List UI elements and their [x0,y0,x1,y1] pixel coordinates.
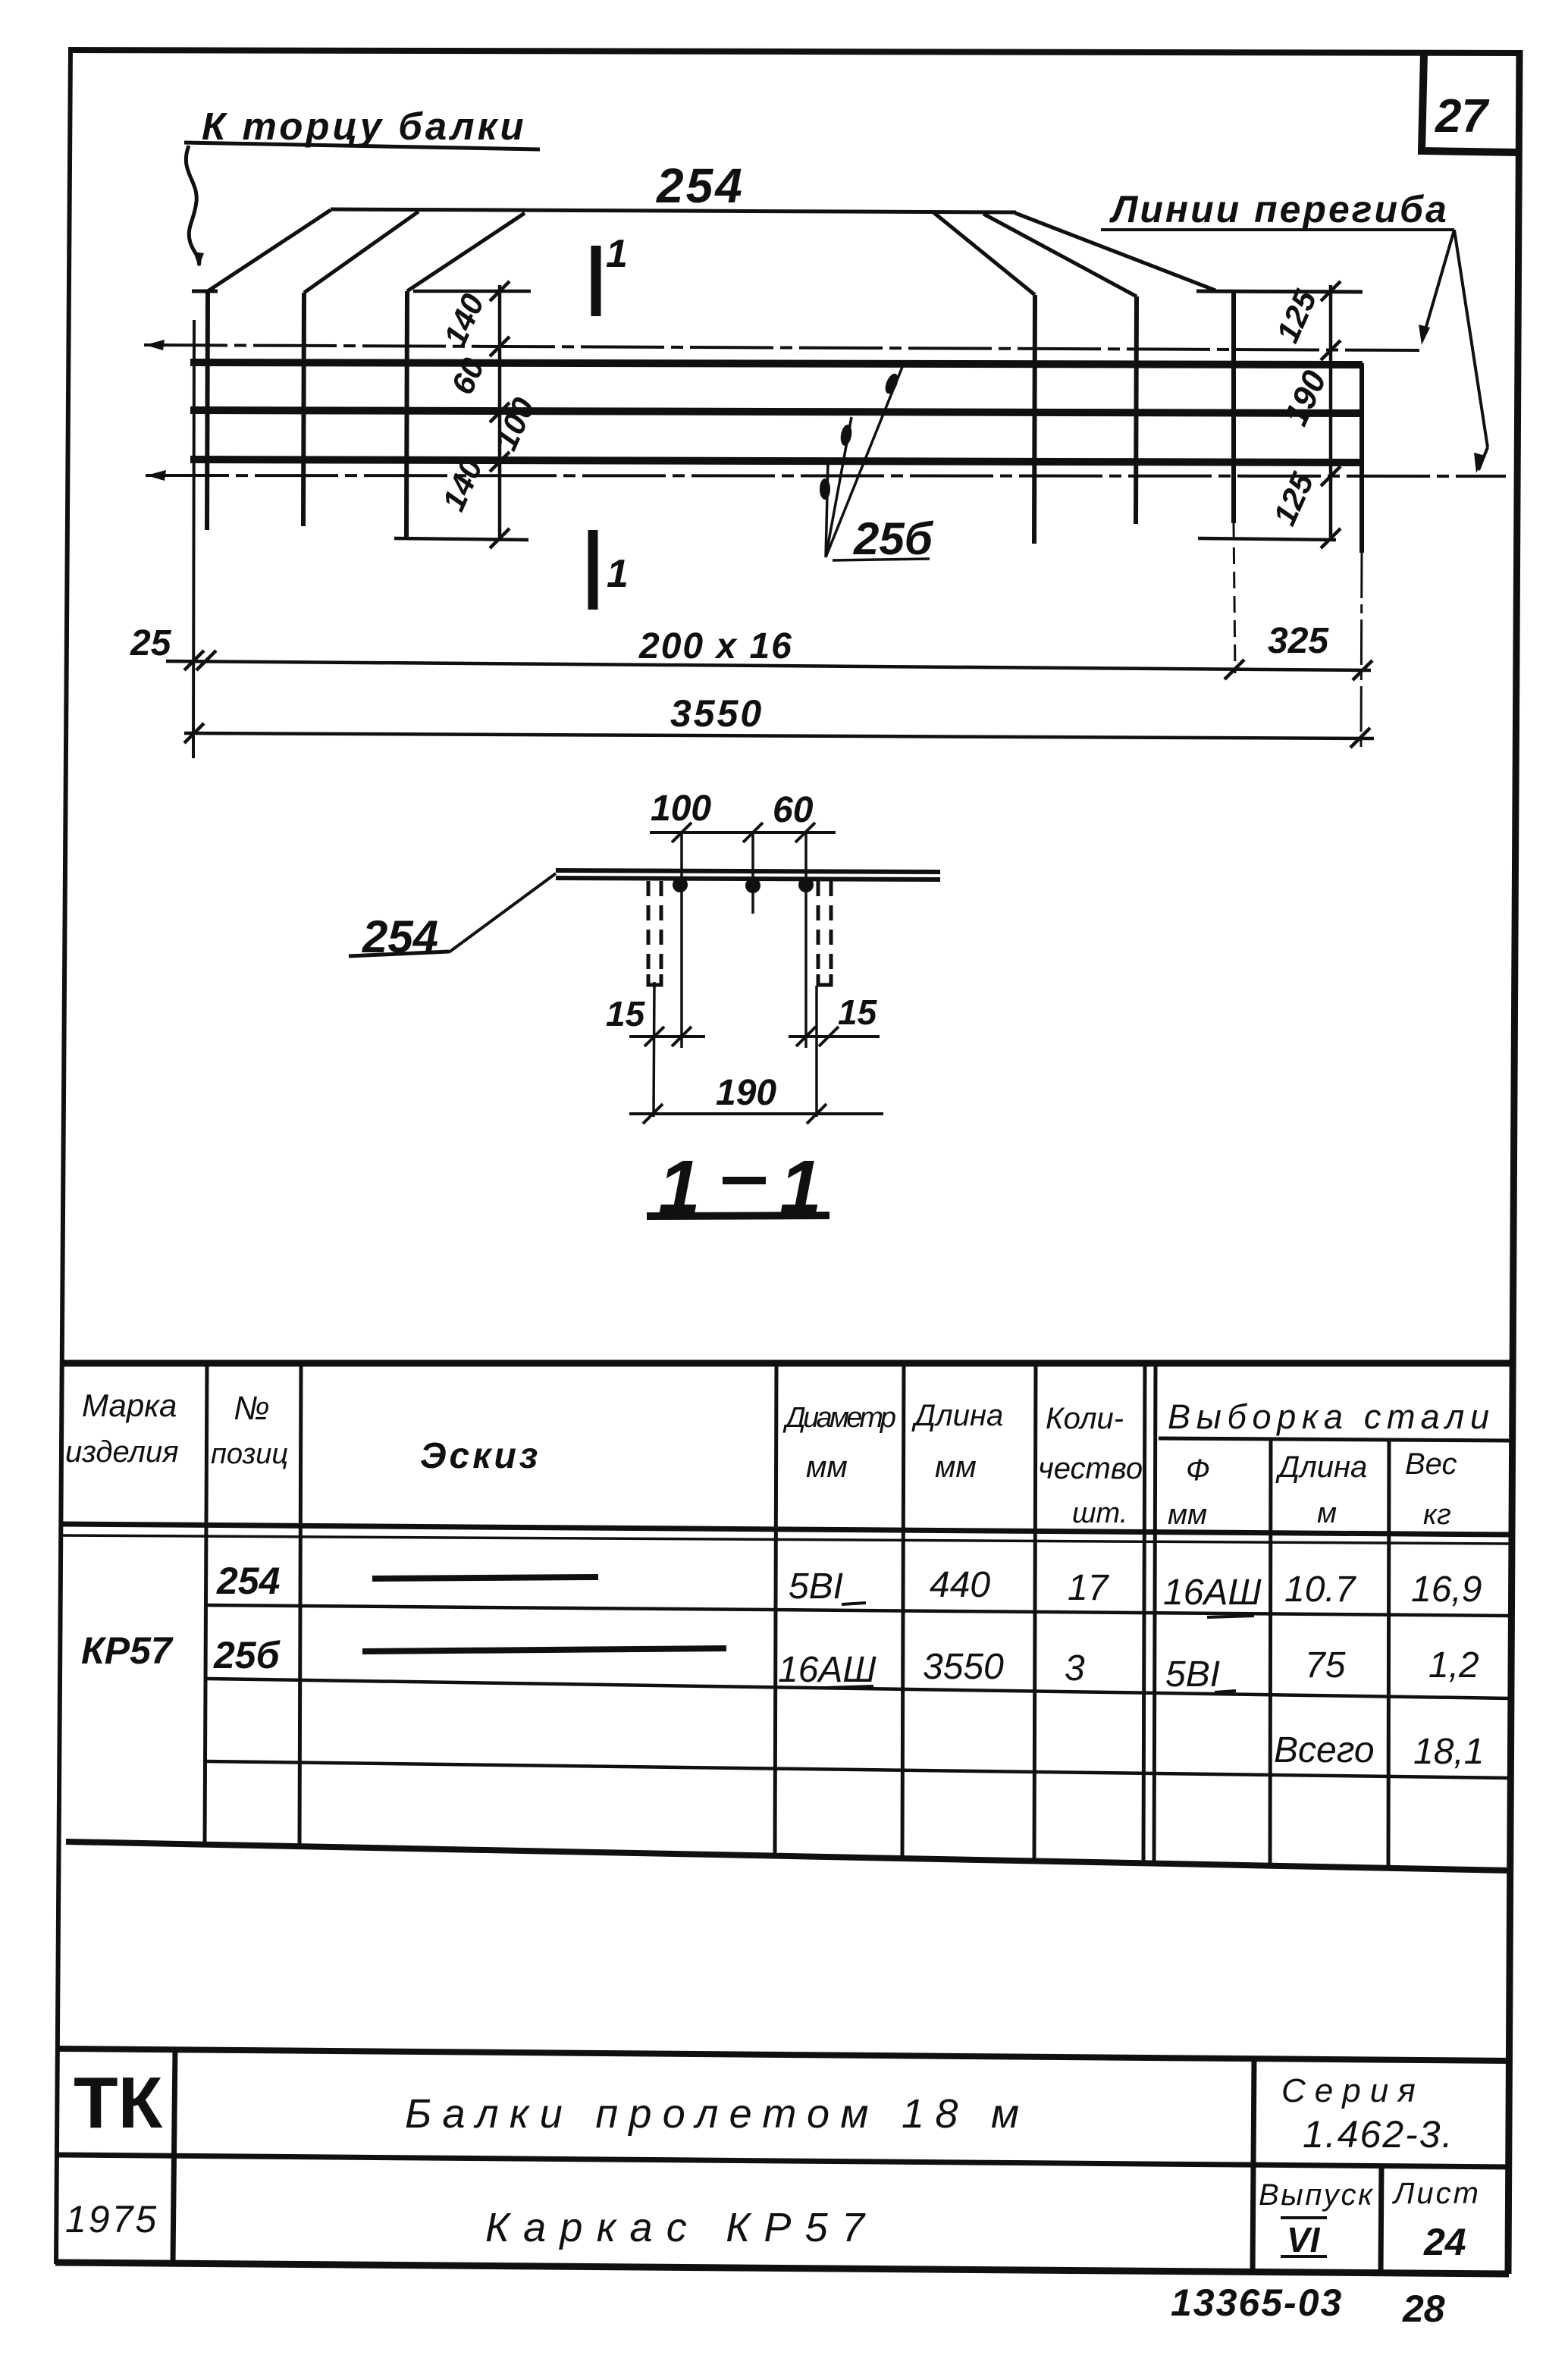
svg-text:Балки пролетом 18 м: Балки пролетом 18 м [405,2091,1019,2137]
svg-text:3550: 3550 [923,1647,1004,1687]
svg-text:м: м [1317,1497,1337,1529]
svg-text:254: 254 [216,1560,280,1602]
svg-text:28: 28 [1402,2288,1445,2330]
svg-text:200 х 16: 200 х 16 [638,626,793,666]
svg-text:Коли-: Коли- [1046,1402,1124,1435]
svg-text:Диаметр: Диаметр [782,1402,896,1434]
svg-text:15: 15 [838,992,878,1032]
svg-text:Длина: Длина [911,1399,1003,1432]
svg-text:18,1: 18,1 [1413,1732,1484,1772]
svg-text:К торцу балки: К торцу балки [202,105,527,148]
svg-text:1.462-3.: 1.462-3. [1303,2113,1454,2156]
svg-text:190: 190 [1277,365,1334,431]
svg-text:1: 1 [607,552,629,596]
svg-text:3550: 3550 [670,692,764,735]
svg-text:Ф: Ф [1186,1453,1210,1487]
svg-text:шт.: шт. [1072,1497,1127,1529]
svg-text:VI: VI [1287,2220,1321,2259]
svg-text:1: 1 [606,232,628,276]
svg-text:190: 190 [716,1073,776,1113]
svg-text:Серия: Серия [1281,2072,1425,2109]
svg-text:125: 125 [1269,284,1324,348]
svg-text:16АШ: 16АШ [1163,1573,1262,1613]
svg-text:Вес: Вес [1405,1447,1457,1481]
svg-text:17: 17 [1068,1568,1110,1608]
svg-text:мм: мм [1168,1499,1207,1531]
svg-text:15: 15 [606,994,646,1033]
svg-text:Выпуск: Выпуск [1259,2178,1374,2212]
svg-text:16АШ: 16АШ [778,1650,877,1690]
svg-text:140: 140 [437,289,491,352]
svg-text:100: 100 [488,393,541,456]
svg-text:27: 27 [1435,90,1489,143]
svg-text:Всего: Всего [1274,1730,1375,1770]
svg-text:440: 440 [930,1565,990,1605]
svg-text:25б: 25б [853,513,934,564]
svg-text:13365-03: 13365-03 [1171,2281,1343,2324]
svg-text:3: 3 [1065,1648,1085,1689]
svg-text:Марка: Марка [82,1388,177,1423]
svg-text:254: 254 [656,158,745,213]
svg-text:24: 24 [1423,2221,1466,2263]
svg-text:мм: мм [806,1450,848,1484]
svg-text:Каркас КР57: Каркас КР57 [485,2205,866,2250]
svg-text:КР57: КР57 [81,1629,174,1672]
svg-text:75: 75 [1305,1645,1346,1686]
svg-text:ТК: ТК [74,2062,163,2143]
svg-text:5ВI: 5ВI [789,1566,843,1607]
svg-text:25: 25 [130,623,172,663]
svg-text:1,2: 1,2 [1428,1645,1479,1686]
svg-text:100: 100 [651,789,711,829]
svg-text:Выборка стали: Выборка стали [1168,1397,1489,1436]
svg-text:чество: чество [1038,1452,1143,1485]
svg-text:254: 254 [362,911,438,962]
svg-text:5ВI: 5ВI [1165,1654,1220,1695]
svg-text:Лист: Лист [1391,2177,1481,2210]
svg-text:25б: 25б [213,1634,281,1676]
svg-text:60: 60 [773,790,814,830]
svg-text:кг: кг [1423,1499,1451,1531]
svg-text:№: № [234,1390,270,1427]
svg-text:изделия: изделия [65,1435,179,1469]
svg-text:10.7: 10.7 [1284,1569,1357,1610]
svg-text:325: 325 [1268,621,1329,661]
svg-text:Эскиз: Эскиз [420,1436,541,1476]
svg-text:Длина: Длина [1275,1450,1367,1484]
svg-text:Линии перегиба: Линии перегиба [1109,188,1449,230]
svg-text:позиц: позиц [211,1438,288,1470]
svg-text:1975: 1975 [65,2198,158,2241]
svg-text:мм: мм [935,1450,977,1484]
svg-text:16,9: 16,9 [1411,1569,1482,1610]
